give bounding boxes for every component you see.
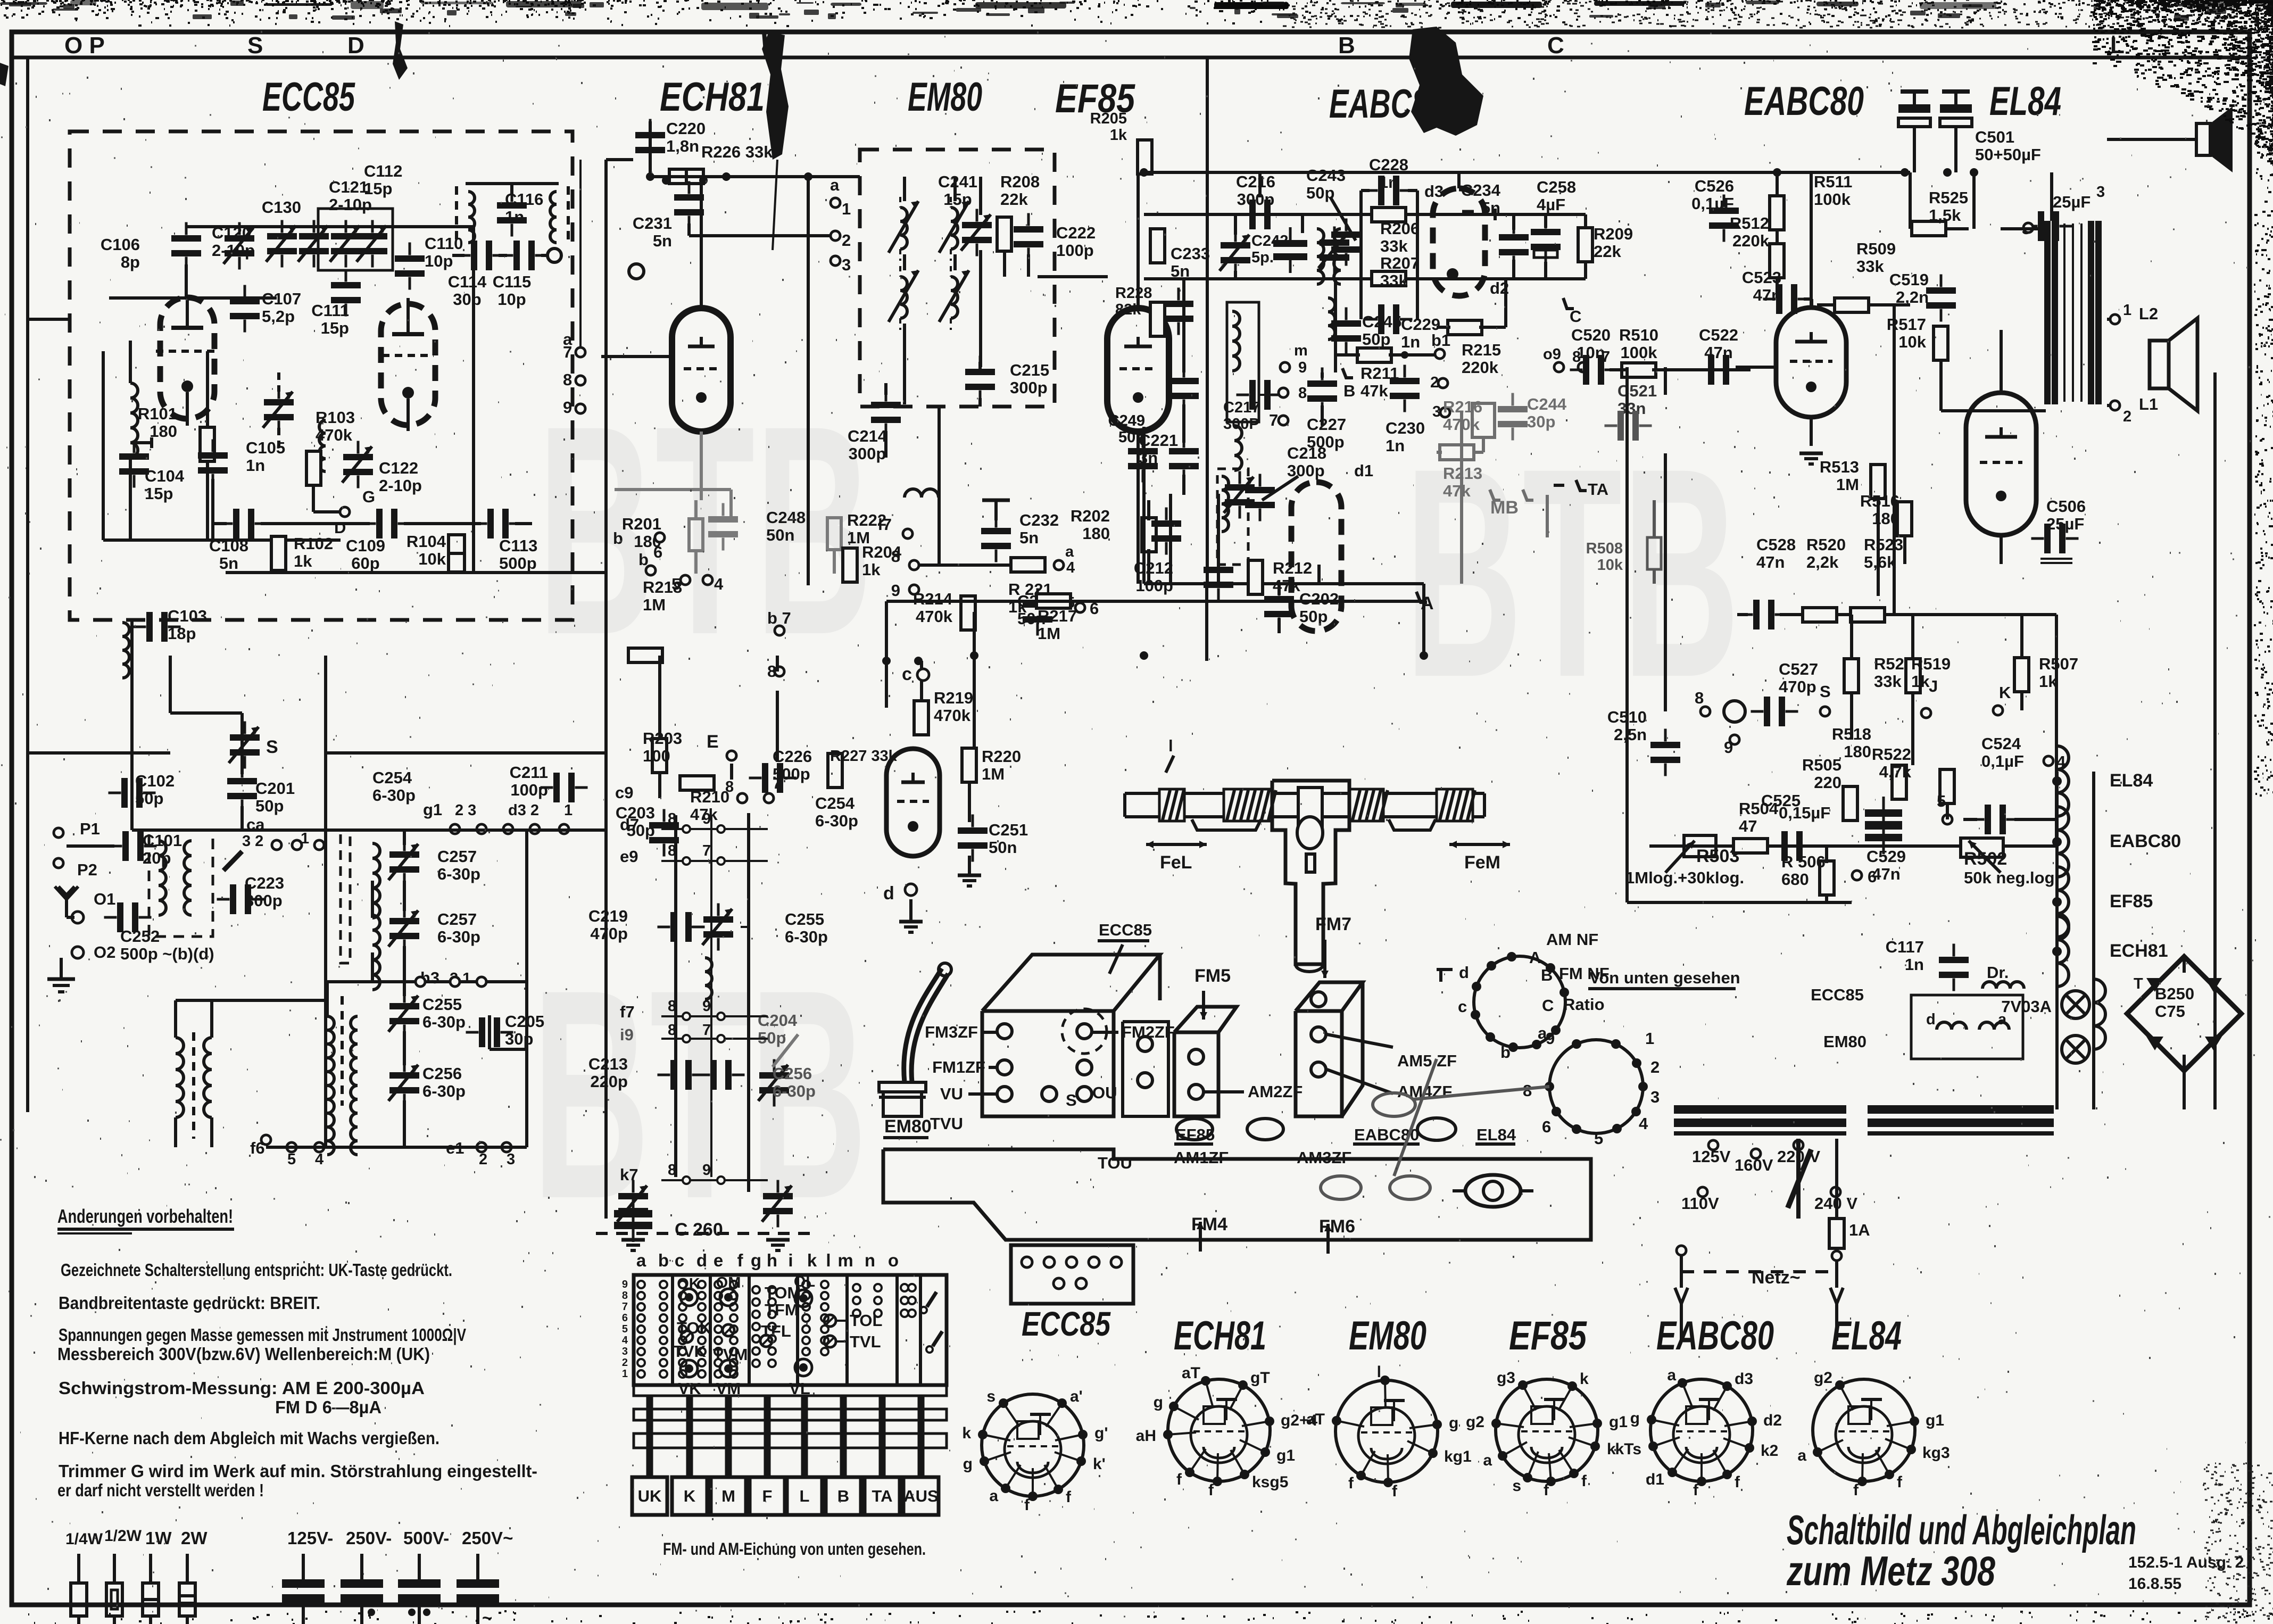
- svg-text:4: 4: [1066, 559, 1075, 576]
- svg-text:470p: 470p: [590, 924, 628, 943]
- svg-text:ECC85: ECC85: [262, 74, 355, 120]
- svg-text:160V: 160V: [1735, 1156, 1773, 1174]
- svg-text:5n: 5n: [1019, 528, 1039, 547]
- svg-text:4: 4: [315, 1151, 323, 1168]
- svg-text:8: 8: [622, 1290, 628, 1302]
- svg-text:9: 9: [1298, 359, 1307, 376]
- svg-text:O1: O1: [94, 890, 115, 908]
- svg-text:C525: C525: [1761, 791, 1801, 810]
- svg-text:~: ~: [482, 1608, 492, 1624]
- svg-text:1k: 1k: [862, 560, 881, 579]
- svg-text:FeL: FeL: [1160, 852, 1192, 873]
- svg-text:1M: 1M: [1038, 624, 1060, 643]
- svg-text:g: g: [963, 1455, 973, 1473]
- svg-text:B: B: [1541, 966, 1553, 984]
- svg-text:4µF: 4µF: [1537, 195, 1565, 214]
- svg-text:R512: R512: [1730, 214, 1769, 233]
- svg-text:50p: 50p: [1362, 330, 1390, 349]
- svg-text:d1: d1: [1354, 461, 1373, 480]
- svg-text:500V-: 500V-: [403, 1528, 449, 1548]
- svg-text:o: o: [888, 1250, 899, 1270]
- svg-text:1: 1: [842, 200, 851, 218]
- svg-text:R507: R507: [2039, 654, 2078, 673]
- svg-text:R508: R508: [1586, 540, 1623, 557]
- svg-text:2-10p: 2-10p: [212, 241, 255, 260]
- svg-text:6: 6: [653, 543, 662, 561]
- svg-text:d1: d1: [1646, 1471, 1664, 1488]
- svg-text:R509: R509: [1856, 239, 1896, 258]
- svg-text:EM80: EM80: [908, 74, 982, 120]
- svg-text:1Mlog.+30klog.: 1Mlog.+30klog.: [1625, 868, 1744, 887]
- svg-text:33k: 33k: [1380, 237, 1408, 255]
- svg-text:300p: 300p: [849, 444, 886, 463]
- svg-text:g: g: [1630, 1410, 1640, 1427]
- svg-text:C252: C252: [120, 927, 160, 946]
- svg-text:C232: C232: [1019, 511, 1059, 529]
- svg-text:C244: C244: [1527, 395, 1567, 413]
- svg-text:C: C: [1542, 996, 1554, 1015]
- svg-text:15p: 15p: [321, 319, 349, 337]
- svg-text:d7: d7: [620, 815, 639, 834]
- svg-text:f: f: [737, 1250, 744, 1270]
- svg-text:TA: TA: [1588, 480, 1608, 499]
- svg-text:5n: 5n: [1481, 198, 1500, 217]
- svg-text:2: 2: [479, 1151, 487, 1168]
- svg-text:VL: VL: [789, 1379, 810, 1398]
- svg-text:R216: R216: [1443, 397, 1482, 416]
- svg-text:C241: C241: [938, 172, 977, 191]
- svg-text:S: S: [247, 32, 263, 59]
- svg-text:3: 3: [507, 1151, 515, 1168]
- svg-text:47k: 47k: [1361, 382, 1388, 400]
- svg-text:220k: 220k: [1732, 231, 1770, 250]
- svg-text:R217: R217: [1038, 607, 1077, 625]
- svg-text:HF-Kerne nach dem Abgleich mit: HF-Kerne nach dem Abgleich mit Wachs ver…: [59, 1428, 439, 1448]
- svg-text:b: b: [1500, 1043, 1511, 1062]
- svg-text:1n: 1n: [246, 456, 265, 475]
- svg-text:a': a': [1070, 1388, 1083, 1405]
- svg-text:EABC80: EABC80: [1656, 1313, 1774, 1358]
- svg-text:5: 5: [1937, 792, 1946, 810]
- svg-text:c: c: [902, 664, 912, 684]
- svg-text:5p.: 5p.: [1251, 249, 1274, 266]
- svg-text:C109: C109: [346, 536, 385, 555]
- svg-text:C220: C220: [666, 119, 706, 138]
- svg-text:30p: 30p: [453, 290, 481, 309]
- svg-text:Ratio: Ratio: [1563, 995, 1605, 1014]
- svg-text:50k neg.log.: 50k neg.log.: [1964, 868, 2059, 887]
- svg-text:Netz~: Netz~: [1752, 1267, 1801, 1288]
- svg-text:C219: C219: [588, 907, 628, 925]
- svg-text:470k: 470k: [916, 607, 953, 626]
- svg-text:8: 8: [1695, 689, 1704, 707]
- svg-text:R511: R511: [1814, 172, 1852, 191]
- svg-text:2: 2: [842, 231, 851, 250]
- svg-text:C130: C130: [262, 198, 301, 217]
- svg-text:ECH81: ECH81: [2110, 941, 2168, 961]
- svg-text:9: 9: [622, 1279, 628, 1290]
- svg-text:C211: C211: [510, 763, 548, 782]
- svg-text:kTs: kTs: [1615, 1440, 1641, 1458]
- svg-text:100: 100: [643, 747, 670, 765]
- svg-text:5n: 5n: [1171, 262, 1190, 280]
- svg-text:C212: C212: [1134, 559, 1173, 577]
- svg-text:47n: 47n: [1872, 865, 1900, 883]
- svg-text:EL84: EL84: [1831, 1313, 1902, 1358]
- svg-text:1M: 1M: [982, 765, 1005, 783]
- svg-text:aH: aH: [1136, 1427, 1156, 1445]
- svg-text:a: a: [1065, 543, 1074, 560]
- svg-text:100p: 100p: [1056, 241, 1094, 260]
- svg-text:1M: 1M: [643, 595, 666, 614]
- svg-text:15p: 15p: [364, 179, 392, 198]
- svg-text:OK: OK: [677, 1275, 700, 1292]
- svg-text:c9: c9: [615, 783, 633, 802]
- svg-text:5,2p: 5,2p: [262, 307, 295, 326]
- svg-text:5,6k: 5,6k: [1864, 553, 1896, 571]
- svg-text:VK: VK: [678, 1379, 701, 1398]
- svg-text:7: 7: [1269, 411, 1278, 429]
- svg-text:TOM: TOM: [765, 1283, 801, 1302]
- svg-text:7V03A: 7V03A: [2001, 997, 2052, 1016]
- svg-text:FM6: FM6: [1319, 1216, 1355, 1237]
- svg-text:P1: P1: [80, 819, 100, 838]
- svg-text:R502: R502: [1964, 849, 2007, 869]
- svg-text:l: l: [1168, 736, 1173, 755]
- svg-text:125V: 125V: [1692, 1147, 1731, 1166]
- svg-text:50p: 50p: [135, 789, 163, 808]
- svg-text:300p: 300p: [245, 891, 283, 910]
- svg-text:180: 180: [150, 422, 177, 441]
- svg-text:7: 7: [622, 1301, 628, 1313]
- svg-text:C: C: [1547, 32, 1564, 59]
- svg-text:TOL: TOL: [850, 1311, 882, 1330]
- svg-text:M: M: [721, 1487, 735, 1505]
- svg-text:e9: e9: [620, 847, 638, 866]
- svg-text:C 260: C 260: [675, 1220, 723, 1240]
- svg-text:7: 7: [702, 1022, 711, 1039]
- svg-text:h: h: [767, 1250, 777, 1270]
- svg-text:kg1: kg1: [1444, 1448, 1472, 1465]
- svg-text:TVU: TVU: [930, 1114, 963, 1133]
- svg-text:C228: C228: [1369, 155, 1408, 174]
- svg-text:R209: R209: [1594, 225, 1633, 243]
- svg-text:f: f: [1066, 1488, 1072, 1506]
- svg-text:m: m: [837, 1250, 853, 1270]
- svg-text:6-30p: 6-30p: [422, 1013, 466, 1031]
- svg-text:g2: g2: [1814, 1369, 1832, 1387]
- svg-text:L: L: [800, 1487, 810, 1505]
- svg-text:10p: 10p: [497, 290, 526, 309]
- svg-text:50n: 50n: [1118, 429, 1145, 446]
- svg-text:300p: 300p: [1287, 461, 1325, 480]
- svg-text:1: 1: [622, 1368, 628, 1380]
- svg-text:C256: C256: [422, 1064, 462, 1083]
- svg-text:5n: 5n: [653, 231, 672, 250]
- svg-text:Trimmer G wird im Werk auf min: Trimmer G wird im Werk auf min. Störstra…: [59, 1461, 537, 1481]
- svg-text:ksg5: ksg5: [1252, 1473, 1288, 1491]
- svg-text:TA: TA: [872, 1487, 892, 1505]
- svg-text:A: A: [1529, 948, 1541, 967]
- svg-text:TVL: TVL: [850, 1332, 881, 1351]
- svg-text:1: 1: [564, 802, 573, 819]
- svg-text:C231: C231: [633, 214, 672, 233]
- svg-text:R525: R525: [1929, 188, 1968, 207]
- svg-text:6-30p: 6-30p: [372, 786, 416, 805]
- svg-text:f: f: [1581, 1472, 1587, 1490]
- svg-text:EL84: EL84: [2110, 770, 2153, 791]
- svg-text:C113: C113: [499, 536, 537, 555]
- svg-text:C122: C122: [379, 459, 418, 477]
- svg-text:180: 180: [1082, 524, 1110, 543]
- svg-text:50n: 50n: [766, 526, 794, 544]
- svg-text:220p: 220p: [590, 1072, 628, 1091]
- svg-text:d: d: [883, 883, 894, 904]
- svg-text:C201: C201: [255, 779, 295, 798]
- svg-text:TOK: TOK: [677, 1319, 711, 1337]
- svg-text:C245: C245: [1362, 312, 1401, 331]
- svg-text:Schwingstrom-Messung: AM E: Schwingstrom-Messung: AM E 200-300µA: [59, 1378, 425, 1398]
- svg-text:Anderungen vorbehalten!: Anderungen vorbehalten!: [57, 1205, 233, 1227]
- svg-text:1n: 1n: [1401, 333, 1420, 351]
- svg-text:m: m: [1294, 342, 1308, 359]
- svg-text:TFL: TFL: [761, 1322, 791, 1340]
- svg-text:EF85: EF85: [1509, 1313, 1587, 1358]
- svg-text:100p: 100p: [510, 781, 548, 799]
- svg-text:K: K: [684, 1487, 696, 1505]
- svg-text:R203: R203: [643, 729, 682, 748]
- svg-text:TVK: TVK: [673, 1342, 707, 1361]
- svg-text:R219: R219: [934, 689, 973, 707]
- svg-text:g: g: [1449, 1414, 1458, 1432]
- svg-text:g: g: [1154, 1394, 1163, 1411]
- svg-text:C213: C213: [588, 1055, 628, 1073]
- svg-text:C: C: [1570, 307, 1581, 326]
- svg-text:8: 8: [563, 370, 572, 389]
- svg-text:8: 8: [725, 778, 734, 796]
- svg-text:R218: R218: [643, 578, 682, 596]
- svg-text:G: G: [362, 487, 375, 506]
- svg-text:EL84: EL84: [1989, 79, 2061, 124]
- svg-text:1n: 1n: [1905, 955, 1924, 974]
- svg-text:R101: R101: [138, 404, 177, 423]
- svg-text:2: 2: [1430, 374, 1439, 391]
- svg-text:FM1ZF: FM1ZF: [932, 1058, 985, 1076]
- svg-text:8: 8: [767, 662, 776, 681]
- svg-text:C75: C75: [2155, 1002, 2185, 1021]
- svg-text:C256: C256: [773, 1064, 812, 1083]
- svg-text:33k: 33k: [1874, 672, 1902, 691]
- svg-text:30p: 30p: [505, 1030, 533, 1048]
- svg-text:50+50µF: 50+50µF: [1975, 145, 2041, 164]
- svg-text:C102: C102: [135, 772, 175, 790]
- svg-text:d3 2: d3 2: [508, 802, 539, 819]
- svg-text:C227: C227: [1307, 415, 1346, 434]
- svg-text:3: 3: [1432, 403, 1441, 420]
- svg-text:8p: 8p: [121, 253, 140, 271]
- svg-text:R520: R520: [1806, 535, 1846, 554]
- svg-text:C106: C106: [101, 235, 140, 254]
- svg-text:15p: 15p: [943, 190, 972, 209]
- svg-text:k': k': [1093, 1455, 1106, 1473]
- svg-text:d: d: [1459, 963, 1469, 982]
- svg-text:f: f: [1693, 1481, 1699, 1499]
- svg-text:a: a: [830, 176, 840, 194]
- svg-text:EABC80: EABC80: [1744, 79, 1864, 124]
- svg-text:g1: g1: [423, 800, 442, 819]
- svg-text:C111: C111: [311, 301, 349, 320]
- svg-text:2W: 2W: [181, 1528, 208, 1548]
- svg-text:f: f: [1024, 1496, 1030, 1514]
- svg-text:470p: 470p: [1779, 677, 1816, 696]
- svg-text:aT: aT: [1182, 1364, 1200, 1382]
- svg-text:a: a: [1483, 1452, 1492, 1469]
- svg-text:L1: L1: [2139, 395, 2158, 413]
- svg-text:Spannungen gegen Masse gemesse: Spannungen gegen Masse gemessen mit Jnst…: [59, 1325, 466, 1345]
- svg-text:OM: OM: [716, 1274, 741, 1291]
- svg-text:TOU: TOU: [1098, 1154, 1132, 1172]
- svg-text:9: 9: [1546, 1029, 1555, 1048]
- svg-text:C501: C501: [1975, 128, 2014, 146]
- svg-text:250V~: 250V~: [462, 1528, 513, 1548]
- svg-text:TVM: TVM: [713, 1345, 748, 1364]
- svg-text:g1: g1: [1609, 1413, 1628, 1431]
- svg-text:FM- und AM-Eichung von unten g: FM- und AM-Eichung von unten gesehen.: [663, 1539, 926, 1559]
- svg-text:C248: C248: [766, 508, 806, 527]
- svg-text:9: 9: [702, 1162, 711, 1179]
- svg-text:30p: 30p: [1527, 412, 1555, 431]
- svg-text:EF85: EF85: [2110, 891, 2153, 912]
- svg-text:B: B: [1343, 382, 1355, 400]
- svg-text:7: 7: [773, 775, 781, 792]
- svg-text:7: 7: [563, 343, 572, 361]
- svg-text:2,2k: 2,2k: [1806, 553, 1839, 571]
- svg-text:5n: 5n: [219, 554, 238, 573]
- svg-text:R204: R204: [862, 543, 902, 561]
- svg-text:R212: R212: [1273, 559, 1312, 577]
- svg-text:EF85: EF85: [1175, 1125, 1215, 1144]
- svg-text:1/2W: 1/2W: [104, 1527, 142, 1545]
- svg-text:C257: C257: [437, 847, 477, 866]
- svg-text:C254: C254: [815, 794, 855, 813]
- svg-text:C526: C526: [1695, 177, 1734, 195]
- svg-text:g1: g1: [1926, 1412, 1944, 1429]
- svg-text:6-30p: 6-30p: [422, 1082, 466, 1100]
- svg-text:680: 680: [1781, 870, 1809, 889]
- svg-text:47n: 47n: [1756, 553, 1785, 571]
- svg-text:22k: 22k: [1594, 242, 1621, 261]
- svg-text:b 7: b 7: [767, 609, 791, 627]
- svg-text:Gezeichnete Schalterstellung e: Gezeichnete Schalterstellung entspricht:…: [61, 1260, 452, 1280]
- svg-text:b: b: [613, 529, 623, 548]
- svg-text:6-30p: 6-30p: [815, 811, 858, 830]
- svg-text:a: a: [636, 1250, 646, 1270]
- svg-text:50p: 50p: [1299, 607, 1328, 626]
- svg-text:f: f: [1853, 1481, 1859, 1499]
- svg-text:125V-: 125V-: [287, 1528, 333, 1548]
- svg-text:3 2: 3 2: [242, 833, 263, 850]
- svg-text:C216: C216: [1236, 172, 1275, 191]
- svg-text:100k: 100k: [1814, 190, 1851, 209]
- svg-text:E: E: [707, 732, 719, 752]
- svg-text:C529: C529: [1866, 847, 1906, 866]
- svg-text:C121: C121: [329, 178, 368, 196]
- svg-text:B250: B250: [2155, 984, 2194, 1003]
- svg-text:Schaltbild und Abgleichplan: Schaltbild und Abgleichplan: [1787, 1506, 2136, 1553]
- svg-text:O2: O2: [94, 943, 115, 962]
- svg-text:C107: C107: [262, 289, 301, 308]
- svg-text:EM80: EM80: [1349, 1313, 1426, 1358]
- svg-text:l: l: [826, 1250, 831, 1270]
- svg-text:10k: 10k: [418, 550, 446, 568]
- svg-text:c: c: [1458, 997, 1467, 1016]
- svg-text:ECC85: ECC85: [1811, 985, 1864, 1004]
- svg-text:4,7k: 4,7k: [1879, 763, 1912, 781]
- svg-text:47: 47: [1739, 817, 1757, 835]
- svg-text:R228: R228: [1115, 285, 1152, 302]
- svg-text:1k: 1k: [2039, 672, 2058, 691]
- svg-text:5: 5: [287, 1151, 296, 1168]
- svg-text:C234: C234: [1461, 181, 1501, 200]
- svg-text:T: T: [2134, 975, 2143, 992]
- svg-text:BTB: BTB: [1405, 406, 1740, 739]
- svg-text:s: s: [1512, 1477, 1521, 1495]
- svg-text:k2: k2: [1761, 1442, 1778, 1460]
- svg-text:R104: R104: [407, 532, 446, 551]
- svg-text:6-30p: 6-30p: [785, 927, 828, 946]
- svg-text:l7: l7: [878, 515, 892, 534]
- svg-text:8: 8: [1298, 385, 1307, 402]
- svg-text:1k: 1k: [294, 552, 312, 570]
- svg-text:C528: C528: [1756, 535, 1796, 554]
- svg-text:Bandbreitentaste gedrückt: BRE: Bandbreitentaste gedrückt: BREIT.: [59, 1293, 320, 1313]
- svg-text:C116: C116: [505, 190, 543, 209]
- svg-text:AM1ZF: AM1ZF: [1174, 1148, 1229, 1167]
- svg-text:2: 2: [2123, 408, 2131, 425]
- svg-text:R505: R505: [1802, 756, 1841, 774]
- svg-text:C522: C522: [1699, 326, 1738, 344]
- svg-text:6-30p: 6-30p: [437, 865, 480, 883]
- svg-text:9: 9: [702, 998, 711, 1015]
- svg-text:C115: C115: [493, 272, 531, 291]
- svg-text:s: s: [986, 1388, 996, 1405]
- svg-text:BTB: BTB: [537, 363, 873, 697]
- svg-text:k: k: [1580, 1370, 1589, 1388]
- svg-text:UK: UK: [638, 1487, 662, 1505]
- svg-text:9: 9: [702, 810, 711, 827]
- svg-text:gT: gT: [1250, 1369, 1270, 1387]
- svg-text:o9: o9: [1543, 346, 1561, 363]
- svg-text:P2: P2: [77, 860, 97, 879]
- svg-text:f6: f6: [250, 1139, 265, 1157]
- svg-text:C524: C524: [1981, 734, 2021, 753]
- svg-text:ECH81: ECH81: [1174, 1313, 1266, 1358]
- svg-text:f: f: [1897, 1473, 1903, 1491]
- svg-text:15p: 15p: [145, 484, 173, 503]
- svg-text:EM80: EM80: [884, 1116, 932, 1137]
- svg-text:C215: C215: [1010, 361, 1049, 379]
- svg-text:1k: 1k: [1110, 127, 1127, 144]
- svg-text:180: 180: [1844, 742, 1871, 761]
- svg-text:d2: d2: [1763, 1412, 1782, 1429]
- svg-text:B: B: [1338, 32, 1355, 59]
- svg-text:R226 33k: R226 33k: [701, 143, 773, 161]
- svg-text:AM NF: AM NF: [1546, 930, 1598, 949]
- svg-text:33k: 33k: [1856, 257, 1884, 276]
- svg-text:10p: 10p: [425, 252, 453, 270]
- svg-text:TFM: TFM: [765, 1300, 799, 1319]
- svg-text:C202: C202: [1299, 590, 1339, 608]
